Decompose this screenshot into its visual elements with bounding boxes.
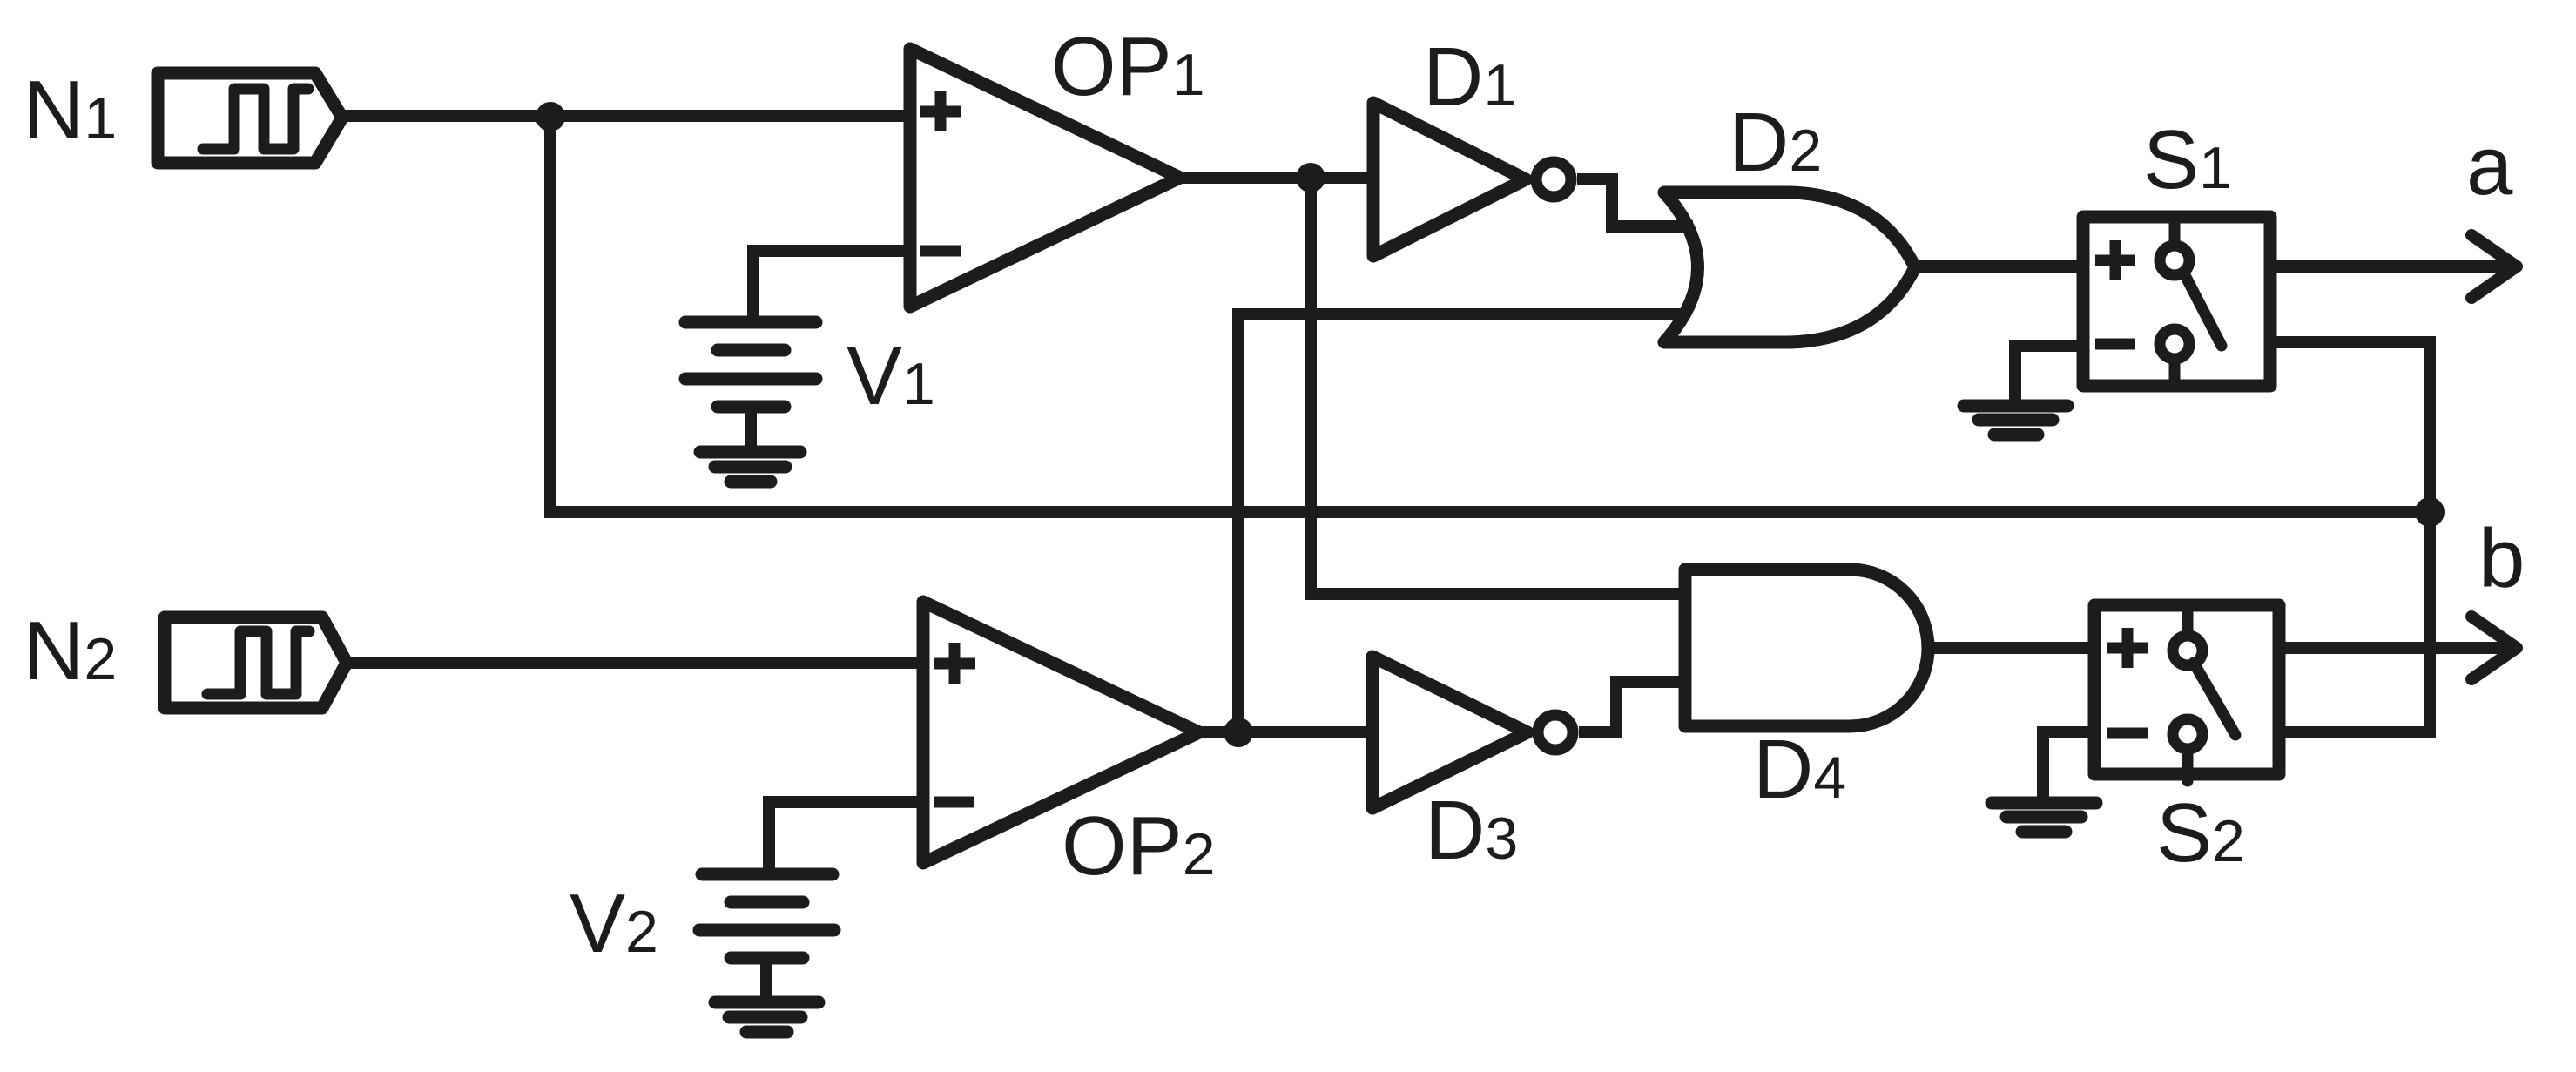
wire S2 output b with arrow (2279, 617, 2517, 679)
wire junction down (544, 117, 556, 512)
wire S2 lower output to junction vertical (2279, 726, 2436, 738)
node OP1 output junction (1296, 163, 1325, 192)
or-gate D2 (1664, 192, 1915, 342)
wire D3 output step to D4 lower input (1579, 682, 1686, 732)
switch S2 (2094, 605, 2279, 781)
battery V2 (699, 874, 834, 1002)
wire D4 output to S2 (1928, 642, 2095, 654)
node b junction (2415, 497, 2445, 527)
op-amp OP1 (910, 49, 1180, 307)
pulse source N1 (158, 73, 342, 163)
wire N1 to OP1 + input (342, 110, 911, 122)
node OP2 output junction (1224, 718, 1253, 747)
battery V1 (685, 322, 816, 452)
wire OP2 output to D3 (1199, 726, 1374, 738)
switch S1 (2083, 217, 2270, 386)
wire bus to S junction (544, 506, 2430, 518)
wire OP1 output to D1 (1180, 172, 1374, 184)
wire N2 to OP2 + input (347, 657, 924, 669)
wire D1 output step to D2 (1577, 179, 1693, 226)
wire S1 ground (2015, 346, 2083, 401)
wire S1 output a with arrow (2270, 235, 2517, 298)
wire D2 output to S1 (1915, 260, 2083, 273)
inverter D3 (1372, 657, 1573, 808)
inverter D1 (1373, 103, 1571, 256)
wire OP2 output up to D2 lower input (1238, 314, 1689, 727)
wire OP2 - input (769, 802, 924, 874)
svg-text:a: a (2466, 119, 2513, 212)
op-amp OP2 (923, 602, 1199, 863)
ground S1 (1964, 406, 2067, 435)
wire OP1 - input (753, 251, 911, 322)
node N1 junction (536, 102, 565, 131)
and-gate D4 (1685, 570, 1928, 726)
wire OP1 output down to D4 top input (1311, 178, 1686, 594)
ground V2 (715, 1002, 819, 1032)
ground S2 (1992, 803, 2096, 832)
wire S1 lower output down to S2 (2270, 342, 2430, 732)
wire S2 ground (2043, 732, 2094, 803)
ground V1 (700, 452, 800, 482)
pulse source N2 (165, 617, 347, 708)
svg-text:b: b (2478, 512, 2525, 605)
